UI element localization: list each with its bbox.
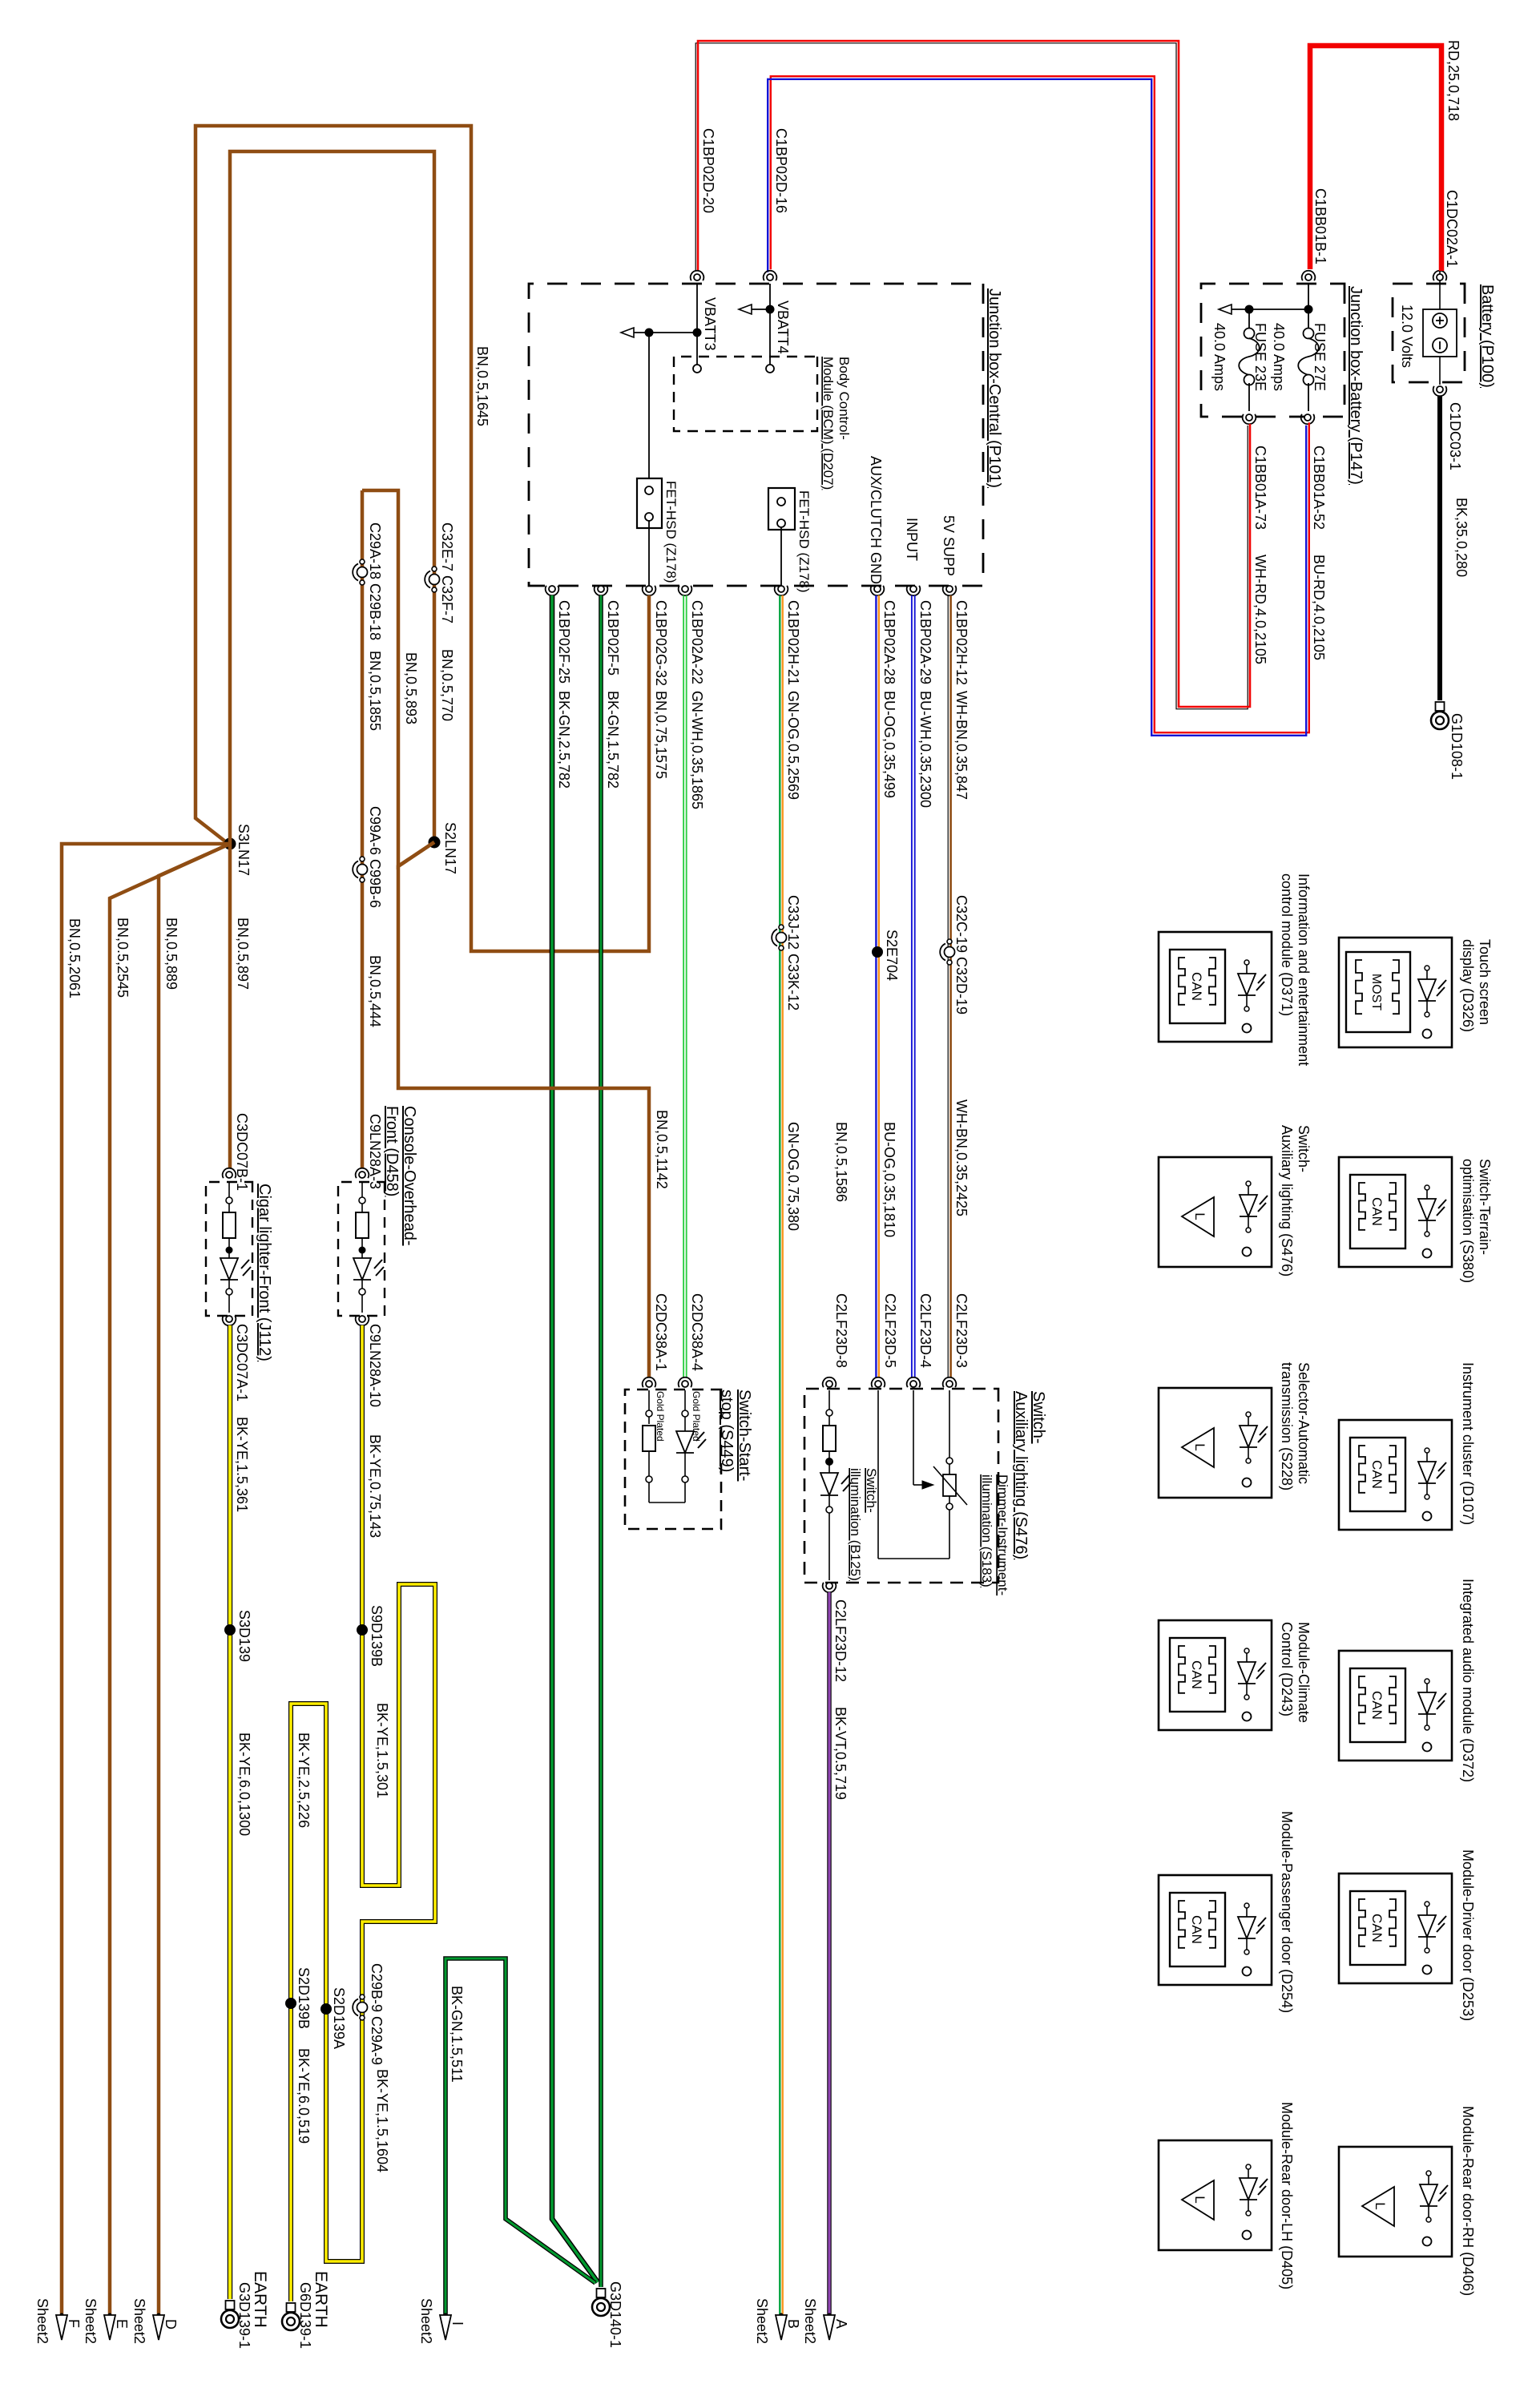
svg-text:G3D139-1: G3D139-1 [236, 2282, 252, 2349]
svg-text:Gold Plated: Gold Plated [691, 1391, 702, 1442]
svg-text:BN,0.5,1645: BN,0.5,1645 [474, 346, 490, 426]
junction box-Central (P101) enclosure [529, 284, 983, 586]
svg-text:CAN: CAN [1369, 1460, 1385, 1489]
svg-text:BK-YE,0.75,143: BK-YE,0.75,143 [367, 1434, 383, 1538]
svg-text:Switch-: Switch- [1296, 1125, 1312, 1172]
ground G3D139-1 [221, 2271, 269, 2349]
label BK-VT,0.5,719 [832, 1707, 849, 1800]
label Console-Overhead-Front (D458) [383, 1106, 418, 1246]
svg-text:Module-Driver door (D253): Module-Driver door (D253) [1460, 1849, 1476, 2021]
svg-text:display (D326): display (D326) [1460, 939, 1476, 1032]
wire BK-VT,0.5,719 to Sheet2 A [827, 1592, 831, 2315]
svg-text:Sheet2: Sheet2 [34, 2298, 50, 2344]
label BK-YE,6.0,1300 [236, 1732, 252, 1836]
sheet ref I [418, 2298, 466, 2344]
splice S9D139B [357, 1605, 385, 1667]
svg-text:C1BB01A-73: C1BB01A-73 [1252, 446, 1268, 530]
svg-text:CAN: CAN [1189, 1660, 1204, 1689]
svg-text:B: B [785, 2319, 801, 2329]
svg-text:L: L [1192, 1212, 1207, 1220]
fuse FUSE 27E 40.0 Amps [1271, 284, 1328, 411]
svg-text:illumination (B125): illumination (B125) [848, 1468, 863, 1581]
svg-text:Cigar lighter-Front (J112): Cigar lighter-Front (J112) [256, 1184, 273, 1361]
wire BK-YE,1.5,361 / 6.0,1300 to ground G3D139-1 [228, 1325, 232, 2299]
svg-text:BK-YE,2.5,226: BK-YE,2.5,226 [296, 1732, 312, 1828]
label C1BP02D-20 [700, 128, 716, 213]
svg-text:Module-Climate: Module-Climate [1296, 1622, 1312, 1723]
dimmer-Instrument-illumination (S183) [878, 1390, 1010, 1595]
module Module-Passenger door (D254) [1159, 1811, 1295, 2013]
svg-text:C32E-7 C32F-7: C32E-7 C32F-7 [439, 522, 455, 623]
module Module-Rear door-LH (D405) [1159, 2102, 1295, 2289]
svg-text:C1BP02F-25: C1BP02F-25 [556, 600, 572, 684]
module Module-Rear door-RH (D406) [1339, 2106, 1476, 2296]
label RD,25.0,718 [1445, 40, 1461, 121]
label WH-RD,4.0,2105 [1252, 555, 1268, 664]
svg-text:C2LF23D-8: C2LF23D-8 [833, 1293, 849, 1368]
svg-text:transmission (S228): transmission (S228) [1279, 1362, 1295, 1490]
svg-text:BU-OG,0.35,499: BU-OG,0.35,499 [881, 691, 897, 798]
splice S2E704 [872, 930, 900, 981]
svg-text:Module-Rear door-LH (D405): Module-Rear door-LH (D405) [1279, 2102, 1295, 2289]
svg-text:Module (BCM) (D207): Module (BCM) (D207) [820, 357, 836, 490]
svg-text:BU-WH,0.35,2300: BU-WH,0.35,2300 [917, 691, 933, 808]
label BK-YE,1.5,361 [234, 1417, 250, 1512]
svg-text:C1BP02F-5: C1BP02F-5 [605, 600, 621, 676]
wire BK-YE,0.75,143 / 301 / 1604 / 2.5,226 / 6.0,519 serpentine [291, 1325, 435, 2301]
label WH-BN,0.35,2425 [953, 1099, 970, 1216]
svg-text:5V SUPP: 5V SUPP [941, 515, 957, 576]
svg-text:EARTH: EARTH [312, 2271, 330, 2328]
svg-text:EARTH: EARTH [251, 2271, 269, 2328]
label BN,0.5,889 [163, 918, 179, 990]
svg-text:Console-Overhead-: Console-Overhead- [401, 1106, 418, 1246]
svg-text:C1BP02D-20: C1BP02D-20 [700, 128, 716, 213]
svg-text:C1BP02D-16: C1BP02D-16 [773, 128, 789, 213]
splice S2LN17 [429, 822, 459, 874]
svg-text:L: L [1192, 1443, 1207, 1450]
svg-text:Junction box-Battery (P147): Junction box-Battery (P147) [1347, 286, 1365, 485]
svg-text:C9LN28A-10: C9LN28A-10 [367, 1324, 383, 1407]
svg-text:S2E704: S2E704 [884, 930, 900, 981]
wire GN-OG,0.5,2569 / 0.75,380 to Sheet2 B [780, 595, 782, 2315]
label BK-YE,1.5,1604 [374, 2069, 390, 2172]
wire RD,25.0,718 battery to fusebox [1310, 46, 1441, 271]
wire WH-BN,0.35,847/2425 to C2LF23D-3 [948, 595, 950, 1377]
svg-text:Switch-: Switch- [864, 1468, 879, 1513]
connector C2DC38A-1 [643, 1293, 669, 1387]
wire BN inner loop S3LN17 to S2LN17 (BN,0.5,770) [230, 151, 434, 844]
svg-text:C2LF23D-4: C2LF23D-4 [917, 1293, 933, 1368]
svg-text:D: D [163, 2319, 179, 2329]
svg-text:C2DC38A-4: C2DC38A-4 [689, 1293, 705, 1371]
lamp Switch-illumination (B125) [820, 1390, 879, 1581]
FET-HSD (Z178) high-side driver 2 [768, 488, 812, 593]
Body Control Module (BCM) (D207) box [674, 357, 817, 431]
module Selector-Automatic transmission (S228) [1159, 1362, 1312, 1498]
svg-text:BK-VT,0.5,719: BK-VT,0.5,719 [832, 1707, 849, 1800]
svg-text:Selector-Automatic: Selector-Automatic [1296, 1362, 1312, 1484]
wire BN,0.75,1575 loop to splice S3LN17 [196, 126, 649, 951]
svg-text:BK,35.0,280: BK,35.0,280 [1453, 498, 1469, 577]
svg-text:Sheet2: Sheet2 [802, 2298, 818, 2344]
svg-text:C1BP02G-32: C1BP02G-32 [653, 600, 669, 686]
wire BN,0.5,889 S3LN17 to Sheet2 D [159, 844, 230, 2315]
svg-text:BN,0.5,1142: BN,0.5,1142 [654, 1110, 670, 1189]
svg-text:C2LF23D-5: C2LF23D-5 [882, 1293, 898, 1368]
svg-text:Integrated audio module (D372): Integrated audio module (D372) [1460, 1579, 1476, 1782]
svg-text:Auxiliary lighting (S476): Auxiliary lighting (S476) [1012, 1391, 1030, 1559]
svg-text:GN-OG,0.5,2569: GN-OG,0.5,2569 [785, 691, 801, 800]
svg-text:CAN: CAN [1369, 1691, 1385, 1720]
switch-Start-stop (S449) enclosure [625, 1390, 721, 1529]
label BK-YE,0.75,143 [367, 1434, 383, 1538]
svg-text:Module-Rear door-RH (D406): Module-Rear door-RH (D406) [1460, 2106, 1476, 2296]
label Battery (P100) [1478, 284, 1496, 388]
label BN,0.5,897 [235, 918, 251, 990]
label BU-OG,0.35,1810 [881, 1122, 897, 1237]
console-Overhead-Front (D458) enclosure [338, 1182, 385, 1316]
svg-text:Switch-Terrain-: Switch-Terrain- [1477, 1159, 1493, 1255]
svg-text:BK-GN,1.5,782: BK-GN,1.5,782 [605, 691, 621, 789]
wire BK,35.0,280 battery negative to ground [1437, 396, 1442, 700]
connector C3DC07A-1 [223, 1316, 250, 1402]
label Cigar lighter-Front (J112) [256, 1184, 273, 1361]
connector C3DC07B-1 [223, 1113, 250, 1191]
label C1BP02D-16 [773, 128, 789, 213]
connector C2LF23D-3 [943, 1293, 970, 1387]
svg-text:Auxiliary lighting (S476): Auxiliary lighting (S476) [1279, 1125, 1295, 1277]
label BN,0.5,1645 [474, 346, 490, 426]
connector C1BB01B-1 [1302, 188, 1328, 280]
svg-text:C9LN28A-3: C9LN28A-3 [367, 1114, 383, 1189]
svg-text:C1BB01A-52: C1BB01A-52 [1311, 446, 1327, 530]
svg-text:BK-YE,6.0,1300: BK-YE,6.0,1300 [236, 1732, 252, 1836]
connector C1BP02H-21 on P101 [775, 586, 801, 800]
svg-text:VBATT3: VBATT3 [702, 297, 718, 351]
label Switch-Auxiliary lighting (S476) [1012, 1391, 1047, 1559]
wire BN,0.5,2061 S3LN17 to Sheet2 F [62, 844, 230, 2315]
svg-text:C3DC07B-1: C3DC07B-1 [234, 1113, 250, 1191]
svg-text:F: F [66, 2319, 82, 2328]
svg-text:Sheet2: Sheet2 [418, 2298, 434, 2344]
svg-text:C1BP02A-29: C1BP02A-29 [917, 600, 933, 684]
switch-Auxiliary lighting (S476) enclosure [804, 1389, 998, 1583]
svg-text:Sheet2: Sheet2 [83, 2298, 99, 2344]
svg-text:C99A-6 C99B-6: C99A-6 C99B-6 [367, 806, 383, 908]
svg-text:Instrument cluster (D107): Instrument cluster (D107) [1460, 1362, 1476, 1525]
svg-text:Switch-Start-: Switch-Start- [736, 1390, 753, 1481]
svg-text:40.0 Amps: 40.0 Amps [1211, 323, 1228, 391]
svg-text:C29A-18 C29B-18: C29A-18 C29B-18 [367, 522, 383, 640]
label Switch-Start-stop (S449) [718, 1390, 753, 1481]
svg-text:BN,0.5,897: BN,0.5,897 [235, 918, 251, 990]
svg-text:C1DC03-1: C1DC03-1 [1447, 402, 1463, 470]
inline connector C33J-12 C33K-12 [772, 895, 801, 1010]
svg-text:S9D139B: S9D139B [369, 1605, 385, 1667]
splice S2D139B [285, 1967, 312, 2029]
node VBATT4 [739, 284, 791, 373]
svg-text:BN,0.5,444: BN,0.5,444 [367, 955, 383, 1027]
connector C1DC03-1 on battery [1433, 386, 1463, 470]
label GN-OG,0.75,380 [785, 1122, 801, 1231]
inline connector C29B-9 C29A-9 [353, 1963, 385, 2065]
ground G6D139-1 [282, 2271, 330, 2349]
wire BK-GN,1.5,782 to ground G3D140-1 [599, 595, 603, 2287]
ground G1D108-1 [1431, 702, 1465, 780]
svg-text:FET-HSD (Z178): FET-HSD (Z178) [796, 490, 812, 593]
svg-text:S3LN17: S3LN17 [236, 824, 252, 876]
svg-text:Information and entertainment: Information and entertainment [1296, 873, 1312, 1066]
wire BU-OG,0.35,499/1810 to C2LF23D-5 [876, 595, 878, 1377]
svg-text:GN-OG,0.75,380: GN-OG,0.75,380 [785, 1122, 801, 1231]
svg-text:G1D108-1: G1D108-1 [1449, 713, 1465, 780]
label BN,0.5,2061 [67, 918, 83, 998]
svg-text:CAN: CAN [1189, 1915, 1204, 1944]
module Switch-Terrain-optimisation (S380) [1339, 1157, 1493, 1283]
console lamp chain [353, 1181, 384, 1313]
ground G3D140-1 [592, 2281, 623, 2348]
svg-text:S2D139B: S2D139B [296, 1967, 312, 2029]
cigar lighter element chain [220, 1181, 251, 1313]
svg-text:AUX/CLUTCH GND: AUX/CLUTCH GND [868, 456, 884, 584]
module Switch-Auxiliary lighting (S476) [1159, 1125, 1312, 1277]
svg-text:BU-OG,0.35,1810: BU-OG,0.35,1810 [881, 1122, 897, 1237]
battery B1 (P100) [1393, 271, 1465, 385]
svg-text:Junction box-Central (P101): Junction box-Central (P101) [986, 288, 1003, 488]
svg-text:C2DC38A-1: C2DC38A-1 [653, 1293, 669, 1371]
label Body Control-Module (BCM) (D207) [820, 357, 852, 490]
svg-text:C1BP02H-12: C1BP02H-12 [953, 600, 970, 685]
svg-text:CAN: CAN [1369, 1914, 1385, 1942]
label BN,0.5,1586 [833, 1122, 849, 1202]
connector C1BP02A-29 on P101 [907, 586, 933, 808]
svg-text:C2LF23D-3: C2LF23D-3 [953, 1293, 970, 1368]
module Touch screen display (D326) [1339, 938, 1493, 1047]
cigar lighter-Front (J112) enclosure [206, 1182, 252, 1316]
label BN,0.5,770 [439, 649, 455, 721]
svg-text:BN,0.75,1575: BN,0.75,1575 [653, 691, 669, 779]
svg-text:BU-RD,4.0,2105: BU-RD,4.0,2105 [1311, 555, 1327, 660]
label BN,0.5,1142 [654, 1110, 670, 1189]
svg-text:WH-BN,0.35,2425: WH-BN,0.35,2425 [953, 1099, 970, 1216]
module Integrated audio module (D372) [1339, 1579, 1476, 1782]
wire BU-RD,4.0,2105 fuse 27E to C1BP02D-16 [768, 76, 1309, 736]
svg-text:S2LN17: S2LN17 [442, 822, 458, 874]
svg-text:BK-YE,6.0,519: BK-YE,6.0,519 [296, 2048, 312, 2144]
svg-text:WH-BN,0.35,847: WH-BN,0.35,847 [953, 691, 970, 800]
junction box-Battery (P147) enclosure [1201, 284, 1344, 417]
svg-text:BN,0.5,2545: BN,0.5,2545 [115, 918, 131, 998]
inline connector C29A-18 C29B-18 [353, 522, 383, 640]
svg-text:Sheet2: Sheet2 [131, 2298, 147, 2344]
connector C1BP02G-32 on P101 [643, 586, 669, 779]
wire BN,0.5,1855/444 C29 loop left leg to console [361, 490, 365, 1168]
svg-text:INPUT: INPUT [904, 518, 920, 561]
wire BN,0.5,893 C29 loop right leg to S2LN17 [362, 490, 434, 866]
LED in S449 [676, 1390, 706, 1502]
sheet ref D [131, 2298, 179, 2344]
svg-text:Control (D243): Control (D243) [1279, 1622, 1295, 1716]
svg-text:12.0 Volts: 12.0 Volts [1399, 305, 1415, 368]
wire WH-RD,4.0,2105 fuse 23E to C1BP02D-20 [695, 41, 1250, 709]
svg-text:Sheet2: Sheet2 [754, 2298, 770, 2344]
svg-text:GN-WH,0.35,1865: GN-WH,0.35,1865 [689, 691, 705, 809]
svg-text:FUSE 27E: FUSE 27E [1312, 323, 1328, 391]
node VBATT3 [621, 284, 718, 373]
svg-text:optimisation (S380): optimisation (S380) [1460, 1159, 1476, 1283]
svg-text:control module (D371): control module (D371) [1279, 873, 1295, 1016]
sheet ref A [802, 2298, 849, 2344]
svg-text:G3D140-1: G3D140-1 [607, 2281, 623, 2348]
svg-text:E: E [114, 2319, 130, 2329]
svg-text:Module-Passenger door (D254): Module-Passenger door (D254) [1279, 1811, 1295, 2013]
splice S2D139A [320, 1987, 347, 2049]
connector C9LN28A-10 [356, 1316, 383, 1407]
module Information and entertainment control module (D371) [1159, 873, 1312, 1066]
svg-text:Touch screen: Touch screen [1477, 939, 1493, 1025]
sheet ref E [83, 2298, 130, 2344]
svg-text:L: L [1373, 2202, 1388, 2209]
svg-text:FUSE 23E: FUSE 23E [1252, 323, 1268, 391]
svg-text:C3DC07A-1: C3DC07A-1 [234, 1324, 250, 1402]
svg-text:BN,0.5,1855: BN,0.5,1855 [367, 651, 383, 731]
svg-text:Front (D458): Front (D458) [383, 1106, 401, 1196]
svg-text:C32C-19 C32D-19: C32C-19 C32D-19 [953, 895, 970, 1014]
connector C1BB01A-73 [1243, 414, 1268, 530]
connector C2LF23D-4 [907, 1293, 933, 1387]
svg-text:C1DC02A-1: C1DC02A-1 [1444, 190, 1460, 268]
resistor chain in S449 [643, 1390, 685, 1502]
svg-text:BN,0.5,770: BN,0.5,770 [439, 649, 455, 721]
svg-text:S3D139: S3D139 [236, 1610, 252, 1662]
label BN,0.5,2545 [115, 918, 131, 998]
svg-text:BK-GN,1.5,511: BK-GN,1.5,511 [449, 1986, 465, 2083]
wire BU-WH,0.35,2300 to C2LF23D-4 [912, 595, 915, 1377]
svg-text:illumination (S183): illumination (S183) [979, 1474, 994, 1587]
connector C1BP02F-5 on P101 [595, 586, 621, 789]
label Junction box-Central (P101) [986, 288, 1003, 488]
wire BK-GN,1.5,511 from Sheet2 I to ground [445, 1958, 595, 2315]
inline connector C32C-19 C32D-19 [940, 895, 970, 1014]
label 5V SUPP [941, 515, 957, 576]
splice S3LN17 [224, 824, 252, 876]
connector C1BP02H-12 on P101 [943, 586, 970, 800]
svg-text:BK-YE,1.5,301: BK-YE,1.5,301 [374, 1703, 390, 1798]
wire BN,0.5,2545 S3LN17 to Sheet2 E [110, 844, 230, 2315]
svg-text:FET-HSD (Z178): FET-HSD (Z178) [663, 481, 679, 583]
svg-text:Switch-: Switch- [1030, 1391, 1047, 1444]
label BK-YE,2.5,226 [296, 1732, 312, 1828]
wire BN,0.5,897 S3LN17 to cigar lighter [228, 844, 232, 1168]
svg-text:VBATT4: VBATT4 [775, 300, 791, 354]
svg-text:BN,0.5,2061: BN,0.5,2061 [67, 918, 83, 998]
wire GN-WH,0.35,1865 to C2DC38A-4 [683, 595, 687, 1377]
sheet ref B [754, 2298, 801, 2344]
label BK-YE,6.0,519 [296, 2048, 312, 2144]
connector C1BP02A-22 on P101 [679, 586, 705, 809]
label BK,35.0,280 [1453, 498, 1469, 577]
connector C2LF23D-8 [823, 1293, 849, 1387]
svg-text:BN,0.5,1586: BN,0.5,1586 [833, 1122, 849, 1202]
svg-text:A: A [833, 2319, 849, 2329]
svg-text:BK-GN,2.5,782: BK-GN,2.5,782 [556, 691, 572, 789]
label BK-YE,1.5,301 [374, 1703, 390, 1798]
svg-text:C1BP02A-22: C1BP02A-22 [689, 600, 705, 684]
sheet ref F [34, 2298, 82, 2344]
svg-text:L: L [1192, 2196, 1207, 2203]
label BK-GN,1.5,511 [449, 1986, 465, 2083]
svg-text:Dimmer-Instrument-: Dimmer-Instrument- [995, 1474, 1010, 1595]
connector C1BP02D-16 [764, 271, 777, 280]
module Instrument cluster (D107) [1339, 1362, 1476, 1530]
svg-text:C1BP02H-21: C1BP02H-21 [785, 600, 801, 685]
label Junction box-Battery (P147) [1347, 286, 1365, 485]
connector C1BB01A-52 [1301, 414, 1327, 530]
label BU-RD,4.0,2105 [1311, 555, 1327, 660]
connector C2LF23D-5 [872, 1293, 898, 1387]
fuse FUSE 23E 40.0 Amps [1211, 305, 1268, 412]
connector C1DC02A-1 on battery [1433, 190, 1460, 280]
svg-text:C2LF23D-12: C2LF23D-12 [832, 1599, 849, 1682]
svg-text:WH-RD,4.0,2105: WH-RD,4.0,2105 [1252, 555, 1268, 664]
svg-text:BN,0.5,889: BN,0.5,889 [163, 918, 179, 990]
svg-text:G6D139-1: G6D139-1 [297, 2282, 313, 2349]
label BN,0.5,1855 [367, 651, 383, 731]
wire BN,0.5,1142 S2LN17 to switch start-stop [398, 842, 649, 1377]
connector C1BP02F-25 on P101 [546, 586, 572, 789]
svg-text:stop (S449): stop (S449) [718, 1390, 736, 1472]
FET-HSD (Z178) high-side driver 1 [637, 333, 679, 586]
svg-text:S2D139A: S2D139A [331, 1987, 347, 2049]
feed arrow in P147 [1219, 305, 1308, 314]
connector C2DC38A-4 [679, 1293, 705, 1387]
svg-text:Body Control-: Body Control- [837, 357, 852, 440]
svg-text:RD,25.0,718: RD,25.0,718 [1445, 40, 1461, 121]
label AUX/CLUTCH GND [868, 456, 884, 584]
module Module-Climate Control (D243) [1159, 1620, 1312, 1730]
wire BK-GN,2.5,782 to ground G3D140-1 [552, 595, 598, 2282]
connector C2LF23D-12 [823, 1583, 849, 1682]
svg-text:Gold Plated: Gold Plated [655, 1391, 666, 1442]
connector C1BP02D-20 [691, 271, 704, 280]
svg-text:C29B-9 C29A-9: C29B-9 C29A-9 [369, 1963, 385, 2065]
svg-text:CAN: CAN [1369, 1197, 1385, 1226]
inline connector C99A-6 C99B-6 [353, 806, 383, 908]
svg-text:C33J-12 C33K-12: C33J-12 C33K-12 [785, 895, 801, 1010]
svg-text:40.0 Amps: 40.0 Amps [1271, 323, 1287, 391]
svg-text:CAN: CAN [1189, 972, 1204, 1001]
connector C1BP02A-28 on P101 [871, 586, 897, 798]
connector C9LN28A-3 [356, 1114, 383, 1189]
svg-text:MOST: MOST [1369, 974, 1383, 1010]
svg-text:Battery (P100): Battery (P100) [1478, 284, 1496, 388]
label BN,0.5,444 [367, 955, 383, 1027]
svg-text:C1BB01B-1: C1BB01B-1 [1312, 188, 1328, 264]
label INPUT [904, 518, 920, 561]
label BN,0.5,893 [403, 652, 419, 724]
svg-text:I: I [450, 2321, 466, 2325]
inline connector C32E-7 C32F-7 [425, 522, 455, 623]
splice S3D139 [224, 1610, 252, 1662]
svg-text:BN,0.5,893: BN,0.5,893 [403, 652, 419, 724]
svg-text:C1BP02A-28: C1BP02A-28 [881, 600, 897, 684]
module Module-Driver door (D253) [1339, 1849, 1476, 2021]
svg-text:BK-YE,1.5,1604: BK-YE,1.5,1604 [374, 2069, 390, 2172]
svg-text:BK-YE,1.5,361: BK-YE,1.5,361 [234, 1417, 250, 1512]
